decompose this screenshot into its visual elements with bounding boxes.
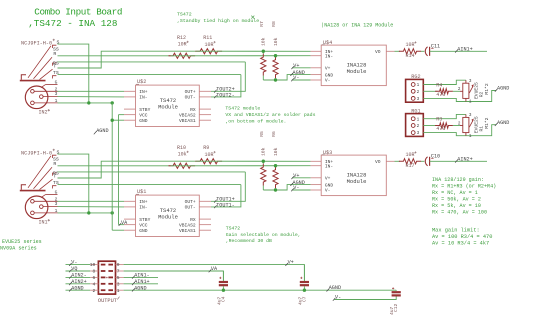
- svg-text:STBY: STBY: [139, 107, 150, 113]
- svg-text:IN-: IN-: [139, 205, 147, 211]
- svg-text:,on bottom of module.: ,on bottom of module.: [225, 119, 286, 125]
- svg-text:TS472: TS472: [226, 225, 241, 231]
- svg-text:M1*2: M1*2: [484, 117, 490, 128]
- svg-text:G: G: [55, 190, 58, 196]
- svg-text:VO: VO: [375, 49, 381, 55]
- svg-text:2: 2: [458, 121, 461, 126]
- svg-text:VA: VA: [211, 266, 218, 272]
- svg-text:VBIAS1: VBIAS1: [179, 118, 196, 124]
- svg-text:GND: GND: [325, 72, 334, 78]
- svg-text:R7: R7: [259, 21, 265, 27]
- svg-text:TS472 module: TS472 module: [225, 105, 260, 111]
- svg-text:470: 470: [436, 92, 445, 98]
- svg-text:1: 1: [117, 288, 120, 294]
- svg-text:AIN1-: AIN1-: [134, 273, 149, 279]
- svg-text:V+: V+: [325, 66, 331, 72]
- svg-text:C10: C10: [431, 154, 440, 160]
- svg-text:V+: V+: [325, 176, 331, 182]
- svg-text:V-: V-: [325, 78, 331, 84]
- svg-text:NV09A series: NV09A series: [0, 246, 37, 252]
- svg-text:AIN2+: AIN2+: [71, 279, 86, 285]
- svg-text:TS: TS: [53, 70, 59, 76]
- svg-text:IN-: IN-: [325, 54, 333, 60]
- svg-text:10R: 10R: [205, 152, 214, 158]
- svg-text:C4: C4: [220, 296, 226, 302]
- svg-text:Max gain limit:: Max gain limit:: [432, 227, 480, 233]
- svg-text:,TS472 - INA 128: ,TS472 - INA 128: [28, 18, 117, 29]
- svg-text:10k: 10k: [261, 147, 267, 156]
- svg-text:R14: R14: [406, 53, 415, 59]
- svg-text:V+: V+: [293, 173, 299, 179]
- svg-text:STBY: STBY: [139, 217, 150, 223]
- svg-text:8: 8: [93, 269, 96, 275]
- svg-text:V-: V-: [325, 188, 331, 194]
- svg-text:R: R: [53, 161, 56, 167]
- svg-text:4: 4: [93, 281, 96, 287]
- svg-text:C12: C12: [393, 303, 399, 312]
- svg-text:3: 3: [417, 97, 420, 102]
- svg-text:2: 2: [458, 87, 461, 92]
- svg-text:VO: VO: [375, 159, 381, 165]
- svg-text:R12: R12: [177, 35, 186, 41]
- svg-text:7: 7: [117, 269, 120, 275]
- svg-text:R4: R4: [436, 82, 442, 88]
- svg-text:V-: V-: [293, 75, 299, 81]
- svg-text:TOUT1-: TOUT1-: [216, 202, 235, 208]
- svg-text:AIN2-: AIN2-: [71, 273, 86, 279]
- svg-text:NCJ9FI-H-0: NCJ9FI-H-0: [21, 40, 52, 46]
- svg-text:1: 1: [417, 117, 420, 122]
- svg-text:T: T: [53, 173, 56, 179]
- svg-text:AGND: AGND: [497, 86, 509, 92]
- svg-text:R1: R1: [478, 126, 484, 132]
- svg-text:10: 10: [90, 262, 96, 268]
- svg-text:2: 2: [93, 288, 96, 294]
- svg-text:AIN2+: AIN2+: [457, 156, 472, 162]
- svg-text:3: 3: [117, 281, 120, 287]
- svg-text:RX: RX: [190, 107, 196, 113]
- svg-text:10R: 10R: [406, 42, 415, 48]
- svg-text:VA: VA: [121, 220, 128, 226]
- svg-text:OUTPUT: OUTPUT: [98, 298, 117, 304]
- svg-text:3: 3: [469, 79, 472, 84]
- svg-text:IN+: IN+: [139, 199, 148, 205]
- svg-text:10k: 10k: [261, 37, 267, 46]
- svg-text:T: T: [53, 63, 56, 69]
- svg-text:R5: R5: [259, 131, 265, 137]
- svg-text:IN+: IN+: [139, 89, 148, 95]
- svg-text:OUT+: OUT+: [185, 89, 196, 95]
- svg-text:EVUE25 series: EVUE25 series: [2, 239, 42, 245]
- svg-text:G: G: [55, 80, 58, 86]
- svg-text:C7: C7: [301, 296, 307, 302]
- svg-text:Module: Module: [347, 178, 367, 185]
- svg-text:6: 6: [93, 275, 96, 281]
- svg-text:10R: 10R: [178, 42, 187, 48]
- svg-text:VX and VBIAS1/2 are solder pad: VX and VBIAS1/2 are solder pads: [225, 112, 315, 118]
- svg-text:Combo Input Board: Combo Input Board: [34, 6, 122, 17]
- svg-text:R9: R9: [203, 145, 209, 151]
- svg-text:VCC: VCC: [139, 112, 148, 118]
- svg-text:10k: 10k: [178, 152, 187, 158]
- svg-text:VBIAS2: VBIAS2: [179, 222, 196, 228]
- svg-text:10k: 10k: [273, 37, 279, 46]
- svg-text:Rx = NC, Av = 1: Rx = NC, Av = 1: [432, 190, 478, 196]
- svg-text:AGND: AGND: [71, 285, 83, 291]
- svg-text:|NA128 or INA 129 Module: |NA128 or INA 129 Module: [321, 23, 393, 29]
- svg-text:9: 9: [117, 262, 120, 268]
- svg-text:1: 1: [417, 83, 420, 88]
- svg-text:NCJ9FI-H-0: NCJ9FI-H-0: [21, 150, 52, 156]
- svg-text:470: 470: [436, 126, 445, 132]
- svg-text:10R: 10R: [205, 42, 214, 48]
- svg-text:VCC: VCC: [139, 222, 148, 228]
- svg-text:GND: GND: [325, 182, 334, 188]
- svg-text:V-: V-: [335, 295, 341, 301]
- svg-text:V+: V+: [288, 260, 294, 266]
- svg-text:Av = 10 R3/4 = 4k7: Av = 10 R3/4 = 4k7: [432, 240, 489, 246]
- svg-text:AGND: AGND: [134, 285, 146, 291]
- svg-text:TS: TS: [53, 180, 59, 186]
- svg-text:R11: R11: [203, 35, 212, 41]
- svg-text:3: 3: [469, 113, 472, 118]
- svg-text:VBIAS2: VBIAS2: [179, 112, 196, 118]
- svg-text:GND: GND: [139, 228, 148, 234]
- svg-text:Av = 100 R3/4 = 470: Av = 100 R3/4 = 470: [432, 234, 492, 240]
- svg-text:2: 2: [417, 124, 420, 129]
- svg-text:Gain selectable on module,: Gain selectable on module,: [226, 232, 301, 238]
- svg-text:Module: Module: [347, 68, 367, 75]
- svg-text:AIN1+: AIN1+: [457, 46, 472, 52]
- svg-text:R17: R17: [406, 163, 415, 169]
- svg-text:Module: Module: [158, 104, 178, 111]
- svg-text:AIN1+: AIN1+: [134, 279, 149, 285]
- svg-text:Rx = 470, Av = 100: Rx = 470, Av = 100: [432, 209, 487, 215]
- svg-text:VQ: VQ: [71, 266, 77, 272]
- svg-text:3: 3: [55, 91, 58, 97]
- svg-text:1: 1: [55, 98, 58, 104]
- svg-text:,Recommend 30 dB: ,Recommend 30 dB: [226, 238, 272, 244]
- svg-text:10R: 10R: [406, 152, 415, 158]
- svg-text:V+: V+: [293, 63, 299, 69]
- svg-text:R: R: [53, 51, 56, 57]
- svg-text:VBIAS1: VBIAS1: [179, 228, 196, 234]
- svg-text:R6: R6: [271, 131, 277, 137]
- svg-text:IN1: IN1: [39, 220, 48, 226]
- svg-text:Rx = 5k, Av = 10: Rx = 5k, Av = 10: [432, 203, 481, 209]
- svg-text:RX: RX: [190, 217, 196, 223]
- svg-text:OUT-: OUT-: [185, 205, 196, 211]
- svg-text:2: 2: [417, 90, 420, 95]
- svg-text:3: 3: [55, 201, 58, 207]
- svg-text:1: 1: [469, 134, 472, 139]
- svg-text:M1*2: M1*2: [484, 83, 490, 94]
- svg-text:V-: V-: [71, 260, 77, 266]
- svg-text:INA 128/129 gain:: INA 128/129 gain:: [432, 177, 484, 183]
- svg-text:TS472: TS472: [177, 11, 192, 17]
- svg-text:V-: V-: [293, 185, 299, 191]
- svg-text:Module: Module: [158, 214, 178, 221]
- svg-text:OUT+: OUT+: [185, 199, 196, 205]
- svg-text:3: 3: [417, 131, 420, 136]
- svg-text:AGND: AGND: [497, 120, 509, 126]
- svg-text:R3: R3: [436, 117, 442, 123]
- svg-text:R10: R10: [177, 145, 186, 151]
- svg-text:R8: R8: [271, 21, 277, 27]
- svg-text:10k: 10k: [273, 147, 279, 156]
- svg-text:GND: GND: [139, 118, 148, 124]
- svg-text:AGND: AGND: [329, 285, 341, 291]
- svg-text:1: 1: [469, 100, 472, 105]
- svg-text:OUT-: OUT-: [185, 95, 196, 101]
- svg-text:IN-: IN-: [139, 95, 147, 101]
- svg-text:5: 5: [117, 275, 120, 281]
- svg-text:R2: R2: [478, 91, 484, 97]
- svg-text:IN-: IN-: [325, 164, 333, 170]
- svg-text:Rx = 50k, Av = 2: Rx = 50k, Av = 2: [432, 196, 481, 202]
- svg-text:Rx = R1+R3 (or R2+R4): Rx = R1+R3 (or R2+R4): [432, 183, 496, 189]
- svg-text:AGND: AGND: [96, 128, 108, 134]
- svg-text:,Standby tied high on module: ,Standby tied high on module: [177, 18, 259, 24]
- svg-text:TOUT2-: TOUT2-: [216, 92, 235, 98]
- svg-text:C11: C11: [431, 44, 440, 50]
- svg-text:IN2: IN2: [39, 110, 48, 116]
- svg-text:1: 1: [55, 208, 58, 214]
